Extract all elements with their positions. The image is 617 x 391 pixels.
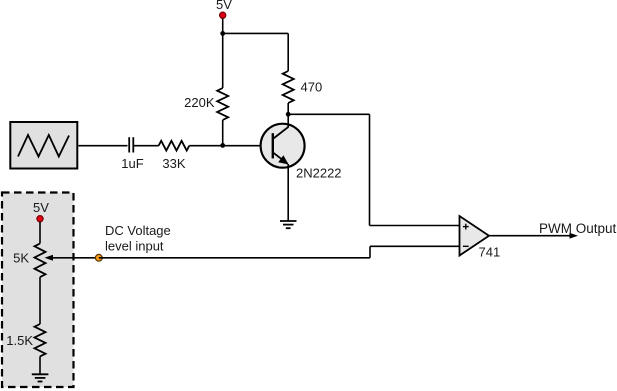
wire top rail horizontal [223, 32, 289, 34]
svg-text:33K: 33K [162, 156, 185, 171]
transistor base bar [272, 133, 274, 158]
transistor Q1 body [261, 124, 305, 168]
svg-text:5K: 5K [13, 251, 29, 266]
transistor emitter lead down [287, 164, 289, 221]
svg-text:DC Voltage: DC Voltage [105, 223, 171, 238]
wire 5V dot down to top rail node [222, 19, 224, 34]
output wire with arrow [489, 235, 571, 237]
resistor 1.5K [35, 324, 46, 356]
transistor collector diagonal [273, 127, 288, 139]
wire to opamp plus input [370, 225, 460, 227]
svg-text:5V: 5V [33, 200, 49, 215]
op-amp U1 741 body [460, 216, 490, 256]
dashed enclosure box [2, 193, 74, 388]
svg-text:level input: level input [105, 239, 164, 254]
potentiometer wiper arrow [53, 257, 99, 259]
svg-text:PWM Output: PWM Output [539, 221, 617, 236]
svg-text:470: 470 [301, 80, 323, 95]
transistor collector lead up [287, 114, 289, 127]
node junction collector [286, 112, 291, 117]
svg-text:1uF: 1uF [121, 156, 143, 171]
ground (pot divider) [32, 374, 49, 381]
op-amp minus sign [463, 245, 469, 247]
wire capacitor to 33K [134, 145, 159, 147]
wire 33K to transistor base (through node) [189, 145, 272, 147]
node DC voltage input (orange) [95, 254, 102, 261]
5V supply terminal dot (pot, red) [37, 216, 43, 222]
wire wiper to opamp minus input [99, 257, 370, 259]
triangle wave symbol [18, 135, 69, 157]
resistor 220K wire below [222, 120, 224, 146]
wire source box to capacitor [79, 145, 128, 147]
output arrowhead [570, 233, 579, 239]
svg-text:741: 741 [479, 245, 501, 260]
transistor emitter arrowhead [278, 155, 288, 164]
wire 5V to potentiometer [39, 222, 41, 244]
resistor 220K wire above [222, 33, 224, 88]
waveform source box [10, 122, 77, 169]
svg-text:220K: 220K [184, 95, 215, 110]
op-amp plus sign [463, 224, 469, 230]
resistor 470 [283, 71, 294, 103]
svg-text:2N2222: 2N2222 [296, 166, 342, 181]
wire 470 to collector node [287, 103, 289, 114]
wire vertical down [369, 114, 371, 225]
resistor 33K [159, 141, 190, 151]
5V supply terminal dot (red) [220, 12, 226, 18]
wire collector node to opamp + : horizontal [288, 113, 369, 115]
ground (transistor emitter) [280, 221, 297, 228]
wire potentiometer to 1.5K [39, 277, 41, 324]
node junction top rail [220, 31, 225, 36]
potentiometer 5K element [35, 244, 46, 278]
capacitor C1 [129, 137, 133, 152]
node junction base/220K [220, 143, 225, 148]
wire 1.5K to ground [39, 356, 41, 374]
resistor 220K [217, 88, 228, 120]
svg-text:1.5K: 1.5K [6, 333, 33, 348]
wire top rail down to 470 [287, 33, 289, 71]
svg-text:5V: 5V [216, 0, 232, 12]
transistor emitter diagonal [273, 152, 288, 163]
